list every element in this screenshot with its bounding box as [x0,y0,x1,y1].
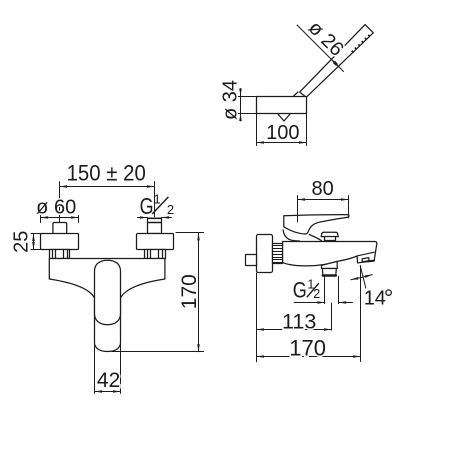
G half dim (side) leader lines [294,302,325,304]
dimension line 170 bottom [257,356,361,358]
dimension line 80 [298,199,349,201]
svg-text:100: 100 [266,122,299,144]
svg-text:G: G [140,194,154,220]
dimension 25 extension lines [31,233,41,235]
right flange threaded cap [148,219,162,234]
dimension line 150 plus-minus 20 [60,186,155,188]
dimension line diameter 34 [240,89,242,122]
side view threads [273,244,283,264]
right wall flange (front) [137,234,174,250]
side view lever handle [284,215,349,234]
left flange centerline [59,182,61,228]
side view wall flange [257,235,273,273]
lever capsule front view [95,260,121,325]
spout aerator detail [362,258,369,262]
svg-text:G: G [293,279,307,303]
svg-text:42: 42 [97,369,120,392]
knurl ticks on rod [352,34,371,52]
side view neck under lever [283,230,299,241]
holder cone diamond [278,106,291,121]
svg-text:170: 170 [178,274,201,309]
G half thread dim arrows (front) [141,217,168,219]
dimension line 113 [257,329,332,331]
dimension line 100 [257,142,307,144]
holder body [257,97,307,114]
dimension line 42 [95,391,121,393]
svg-text:25: 25 [11,231,33,253]
hand shower rod [300,25,374,98]
dimension line 170 front [198,233,200,352]
wall extension line [256,273,258,362]
side view body and spout [283,242,377,266]
hose outlet port tier1 [322,261,338,268]
port centerline [331,303,333,330]
dimension 100 extension lines [256,114,258,146]
svg-text:2: 2 [167,202,174,217]
dimension line diameter 26 [297,25,344,72]
svg-text:113: 113 [282,310,316,334]
left wall flange (front) [41,234,79,250]
dimension line diameter 60 [41,217,79,219]
dimension 170 front extension lines [176,232,204,234]
dimension 80 extension lines [297,196,299,223]
svg-text:150 ± 20: 150 ± 20 [67,160,146,185]
svg-text:ø 60: ø 60 [36,196,76,218]
14 deg arc arrows [351,275,373,280]
svg-text:170: 170 [289,336,326,361]
right nut [145,250,166,259]
left nut [50,250,70,259]
14 deg tilted line [360,266,366,288]
dimension 42 extension lines (column edges) [94,343,96,393]
diverter knob [321,232,338,236]
dimension line 25 [33,234,35,250]
faucet body front view [49,259,165,352]
hose outlet port nut [322,269,336,276]
14 deg vertex vertical line [360,266,362,362]
left flange cap [53,223,67,234]
right flange centerline [154,182,156,223]
svg-text:1: 1 [154,192,161,207]
side view pipe stub [246,255,257,266]
bracket clip line [293,92,298,97]
svg-text:14: 14 [364,288,386,310]
svg-text:80: 80 [311,178,333,200]
svg-text:ø 34: ø 34 [220,80,242,120]
dimension diameter 34 extension lines [238,96,257,98]
